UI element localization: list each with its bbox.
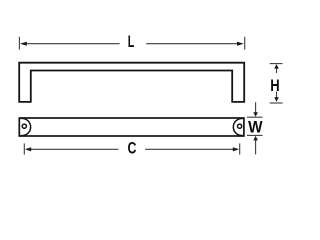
svg-text:L: L: [128, 32, 135, 51]
svg-text:C: C: [128, 138, 137, 157]
svg-text:W: W: [248, 118, 263, 137]
svg-text:H: H: [270, 76, 279, 95]
